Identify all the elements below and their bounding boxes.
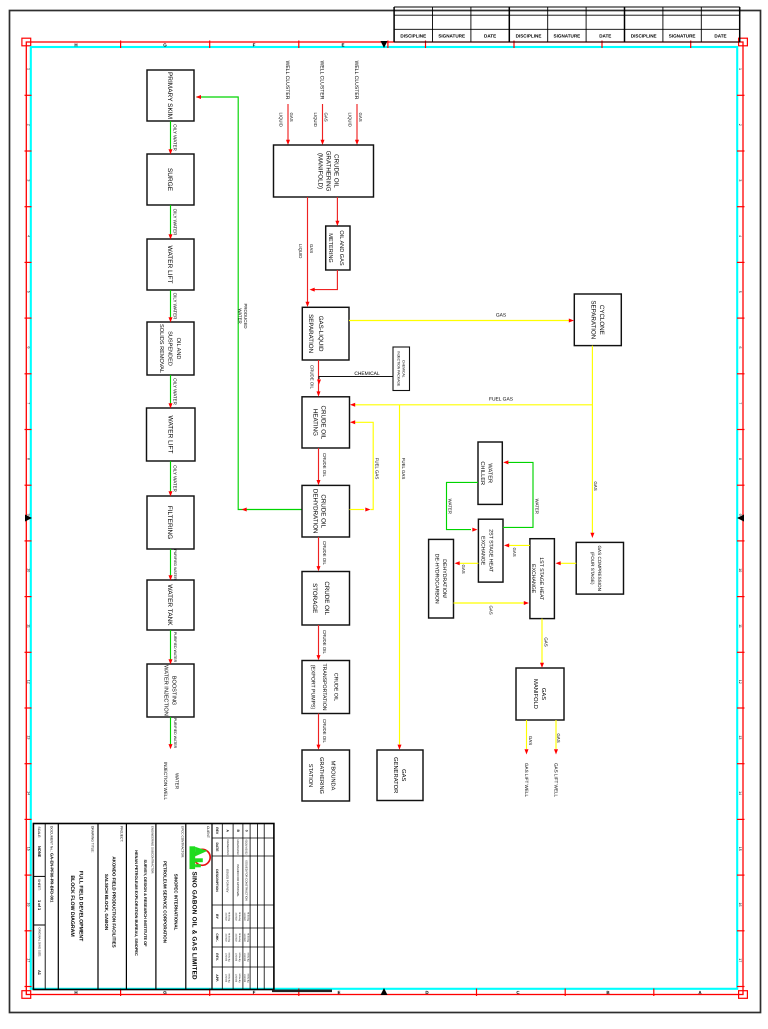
svg-text:M.Sw.hg: M.Sw.hg [227, 953, 230, 963]
block 2ST STAGE HEAT EXCHANGE [478, 519, 503, 582]
yellow wire dehydration fuel gas to heating [350, 509, 365, 511]
black wire chemical injection [319, 377, 393, 380]
block CRUDE OIL STORAGE [302, 572, 350, 626]
svg-text:GAS: GAS [400, 769, 407, 781]
cell EPCC CONTRACTOR [181, 826, 185, 858]
svg-text:16: 16 [738, 903, 742, 907]
svg-text:FILTERING: FILTERING [166, 506, 173, 539]
red wire heating to dehydration CRUDE OIL [318, 448, 320, 481]
block CRUDE OIL DEHYDRATION [302, 485, 350, 537]
trim mark bottom [272, 989, 332, 992]
svg-text:HEATING: HEATING [312, 409, 319, 436]
yellow wire cyclone to compression GAS [591, 346, 593, 533]
svg-text:H: H [74, 990, 77, 995]
centre marks left/right [25, 515, 32, 522]
green wire PURIFIED WATER segment 8 [170, 717, 172, 745]
svg-text:WELL CLUSTER: WELL CLUSTER [284, 61, 290, 100]
svg-text:GA-EN-PF00-PR-BFD-001: GA-EN-PF00-PR-BFD-001 [49, 853, 54, 903]
svg-text:APP.: APP. [215, 974, 219, 982]
node WELL CLUSTER 2 [319, 61, 325, 100]
svg-text:DESCRIPTION: DESCRIPTION [215, 869, 219, 892]
svg-text:BY: BY [215, 914, 219, 919]
svg-text:DOCUMENT No.:: DOCUMENT No.: [50, 826, 54, 852]
svg-text:BOOSTING: BOOSTING [171, 676, 177, 706]
svg-text:GAS: GAS [323, 113, 328, 122]
svg-text:SUSPENDED: SUSPENDED [167, 331, 173, 366]
svg-text:16: 16 [27, 903, 31, 907]
svg-text:GAS: GAS [289, 113, 294, 122]
block GAS MANIFOLD [516, 668, 564, 720]
svg-text:CRUDE OIL: CRUDE OIL [322, 541, 327, 565]
svg-text:8: 8 [27, 458, 31, 460]
svg-text:DRAWING TITLE:: DRAWING TITLE: [91, 826, 95, 853]
svg-text:LIQUID: LIQUID [347, 113, 352, 127]
svg-text:PRIMARY SKIM: PRIMARY SKIM [166, 72, 173, 119]
svg-text:GAS: GAS [543, 637, 548, 646]
svg-text:GAS LIFT WELL: GAS LIFT WELL [524, 763, 529, 798]
svg-text:NONE: NONE [37, 846, 42, 858]
node WELL CLUSTER 3 [353, 61, 359, 100]
svg-text:13: 13 [738, 735, 742, 739]
block DEHYDRATION/ DE-HYDROCARBON [429, 539, 454, 618]
block CYCLONE SEPARATION [574, 294, 621, 346]
cell SHEET [37, 879, 41, 891]
block OIL AND SUSPENDED SOLIDS REMOVAL [147, 322, 194, 375]
svg-text:M.Sw.hg: M.Sw.hg [246, 974, 249, 984]
svg-text:14: 14 [27, 791, 31, 795]
svg-text:M.Sw.hg: M.Sw.hg [238, 912, 241, 922]
block SURGE [147, 154, 194, 205]
svg-text:OIL AND GAS: OIL AND GAS [338, 230, 344, 265]
svg-text:5: 5 [738, 291, 742, 293]
green wire OILY WATER segment 3 [170, 290, 172, 318]
svg-text:GAS: GAS [309, 244, 314, 253]
green wire OILY WATER segment 4 [170, 375, 172, 404]
red wire metering return [312, 270, 337, 290]
discipline signature table [394, 7, 740, 42]
svg-text:SEPARATION: SEPARATION [307, 314, 314, 353]
green wire PRODUCED WATER return [197, 97, 303, 510]
svg-text:STATION: STATION [307, 764, 313, 787]
svg-text:STORAGE: STORAGE [311, 583, 318, 613]
svg-text:WATER: WATER [534, 499, 539, 514]
svg-text:0: 0 [244, 830, 248, 832]
centre marks top/bottom [381, 41, 388, 48]
svg-text:GAS-LIQUID: GAS-LIQUID [317, 316, 324, 352]
svg-text:SALSICH BLOCK, GABON: SALSICH BLOCK, GABON [104, 874, 109, 930]
svg-text:DE-HYDROCARBON: DE-HYDROCARBON [434, 554, 440, 604]
svg-text:CRUDE OIL: CRUDE OIL [320, 494, 327, 528]
revision table headers [215, 827, 219, 835]
svg-text:2: 2 [27, 124, 31, 126]
svg-text:G: G [163, 43, 167, 48]
block M'BOUNDA GRATHERING STATION [302, 750, 350, 801]
yellow wire FUEL GAS drop to gas generator [399, 405, 401, 745]
svg-text:REV: REV [215, 827, 219, 835]
svg-text:PURIFIED WATER: PURIFIED WATER [173, 718, 177, 749]
yellow wire FUEL GAS main header [354, 404, 592, 406]
yellow wire 1st stage to gas manifold GAS [541, 619, 543, 663]
svg-text:3: 3 [738, 179, 742, 181]
svg-text:E: E [337, 990, 340, 995]
svg-text:(MANIFOLD): (MANIFOLD) [316, 153, 323, 189]
svg-text:M.Sw.hg: M.Sw.hg [227, 974, 230, 984]
svg-text:10/2022: 10/2022 [235, 912, 238, 921]
svg-text:WELL CLUSTER: WELL CLUSTER [353, 61, 359, 100]
svg-text:FUEL GAS: FUEL GAS [489, 397, 514, 403]
svg-text:10: 10 [738, 568, 742, 572]
svg-text:10/2022: 10/2022 [224, 953, 227, 962]
svg-text:6: 6 [738, 347, 742, 349]
yellow wire 1st to 2nd stage GAS [509, 544, 530, 546]
svg-text:(FOUR STAGE): (FOUR STAGE) [590, 552, 595, 585]
svg-text:GAS: GAS [512, 548, 517, 557]
svg-text:6: 6 [27, 347, 31, 349]
yellow wire manifold to gas lift well 1 [526, 720, 528, 749]
red wire well cluster 1 feed [287, 104, 289, 140]
revision row A [226, 829, 230, 832]
svg-text:PETROLEUM SERVICE CORPORATION: PETROLEUM SERVICE CORPORATION [162, 861, 167, 943]
svg-text:M.Sw.hg: M.Sw.hg [227, 912, 230, 922]
svg-text:SOLIDS REMOVAL: SOLIDS REMOVAL [158, 324, 164, 373]
svg-text:WATER LIFT: WATER LIFT [167, 416, 174, 454]
svg-text:M.Sw.hg: M.Sw.hg [227, 933, 230, 943]
svg-text:12: 12 [27, 680, 31, 684]
svg-text:INJECTION WELL: INJECTION WELL [163, 762, 168, 800]
block GAS COMPRESSION (FOUR STAGE) [576, 542, 623, 594]
svg-text:10/2022: 10/2022 [243, 933, 246, 942]
svg-text:1ST STAGE HEAT: 1ST STAGE HEAT [538, 557, 544, 601]
svg-text:GRATHERING: GRATHERING [324, 151, 331, 192]
svg-text:2ST STAGE HEAT: 2ST STAGE HEAT [488, 529, 494, 573]
svg-text:BLOCK FLOW DIAGRAM: BLOCK FLOW DIAGRAM [69, 875, 75, 936]
svg-text:11: 11 [27, 624, 31, 628]
svg-text:10/2022: 10/2022 [235, 974, 238, 983]
svg-text:10/APR/2022: 10/APR/2022 [236, 839, 239, 855]
block GAS-LIQUID SEPARATION [302, 307, 349, 360]
svg-text:ENGINEERING SUBCONTRACTOR:: ENGINEERING SUBCONTRACTOR: [151, 826, 155, 874]
svg-text:H: H [74, 43, 77, 48]
svg-text:WATER: WATER [447, 499, 452, 514]
svg-text:WELL CLUSTER: WELL CLUSTER [319, 61, 325, 100]
svg-text:METERING: METERING [327, 233, 333, 263]
svg-text:CRUDE OIL: CRUDE OIL [332, 673, 338, 701]
svg-text:GAS: GAS [540, 688, 547, 700]
svg-text:TRANSPORTATION: TRANSPORTATION [321, 664, 327, 711]
svg-text:GAS: GAS [461, 565, 466, 574]
svg-text:F: F [253, 43, 256, 48]
svg-text:17: 17 [27, 958, 31, 962]
red frame corner squares [22, 38, 31, 46]
yellow wire compression to 1st stage [560, 562, 576, 564]
block BOOSTING WATER INJECTION [147, 664, 194, 717]
green wire OILY WATER segment 5 [170, 461, 172, 492]
svg-text:DEHYDRATION: DEHYDRATION [312, 489, 319, 534]
svg-text:GRATHERING: GRATHERING [318, 757, 324, 794]
svg-text:SIGNATURE: SIGNATURE [554, 33, 581, 38]
svg-text:CLIENT:: CLIENT: [206, 826, 210, 838]
block WATER CHILLER [478, 442, 502, 504]
svg-text:FULL FIELD DEVELOPMENT: FULL FIELD DEVELOPMENT [78, 871, 84, 942]
svg-text:WATER LIFT: WATER LIFT [166, 246, 173, 284]
svg-text:10/2022: 10/2022 [224, 933, 227, 942]
cell DRAWING TITLE [91, 826, 95, 853]
node WELL CLUSTER 1 [284, 61, 290, 100]
svg-text:CRUDE OIL: CRUDE OIL [322, 719, 327, 743]
green wire chiller return WATER [503, 462, 533, 527]
svg-text:CRUDE OIL: CRUDE OIL [322, 630, 327, 654]
block WATER TANK [147, 580, 194, 630]
svg-text:DISCIPLINE: DISCIPLINE [400, 33, 426, 38]
red wire transportation to mbounda CRUDE OIL [318, 714, 320, 746]
red wire well cluster 2 feed [322, 104, 324, 140]
svg-text:10/2022: 10/2022 [243, 912, 246, 921]
svg-text:WATER: WATER [486, 463, 492, 483]
svg-text:E: E [341, 43, 344, 48]
yellow wire dehydration to 1st stage GAS [454, 602, 526, 604]
svg-text:DISCIPLINE: DISCIPLINE [631, 33, 657, 38]
svg-text:OIL AND: OIL AND [175, 338, 181, 360]
cell DOCUMENT NO [50, 826, 54, 852]
block PRIMARY SKIM [147, 70, 194, 121]
svg-text:G: G [163, 990, 167, 995]
green wire chiller supply WATER [447, 482, 479, 529]
svg-text:SHEET:: SHEET: [37, 879, 41, 891]
svg-text:OILY WATER: OILY WATER [173, 124, 178, 152]
svg-text:LIQUID: LIQUID [298, 244, 303, 258]
block CRUDE OIL TRANSPORTATION (EXPORT PUMPS) [302, 661, 350, 714]
svg-text:DATE: DATE [484, 33, 496, 38]
red wire gathering to metering [336, 197, 338, 222]
svg-text:8: 8 [738, 458, 742, 460]
green wire OILY WATER segment 1 [170, 121, 172, 150]
svg-text:CHILLER: CHILLER [479, 461, 485, 485]
zone letters top edge [74, 43, 344, 48]
revision row B [236, 829, 240, 832]
block WATER LIFT 2 [147, 408, 196, 461]
svg-text:DATE: DATE [215, 843, 219, 853]
svg-text:15: 15 [738, 847, 742, 851]
svg-text:SIGNATURE: SIGNATURE [438, 33, 465, 38]
svg-text:LIQUID: LIQUID [278, 113, 283, 127]
svg-text:10/2022: 10/2022 [235, 953, 238, 962]
green wire PURIFIED WATER segment 6 [170, 549, 172, 576]
cell ENGINEERING SUBCONTRACTOR [151, 826, 155, 874]
svg-text:CRUDE OIL: CRUDE OIL [322, 453, 327, 477]
red wire gathering to separation (gas liquid) [307, 197, 309, 303]
svg-text:F: F [253, 990, 256, 995]
svg-text:GENERATOR: GENERATOR [392, 757, 399, 793]
block WATER LIFT 1 [147, 239, 194, 290]
cell CLIENT [206, 826, 210, 838]
svg-text:PURIFIED WATER: PURIFIED WATER [173, 632, 177, 663]
yellow wire 2nd stage to dehydration GAS [459, 562, 478, 564]
svg-text:GAS: GAS [358, 113, 363, 122]
svg-text:EXCHANGE: EXCHANGE [530, 564, 536, 594]
svg-text:DATE: DATE [714, 33, 726, 38]
svg-text:15: 15 [27, 847, 31, 851]
svg-text:5: 5 [27, 291, 31, 293]
green wire PURIFIED WATER segment 7 [170, 630, 172, 660]
yellow wire manifold to gas lift well 2 [555, 720, 557, 749]
svg-text:GAS: GAS [496, 313, 507, 319]
svg-text:PROJECT:: PROJECT: [120, 826, 124, 842]
block OIL AND GAS METERING [326, 226, 350, 270]
svg-text:14: 14 [738, 791, 742, 795]
svg-text:9: 9 [27, 514, 31, 516]
zone ticks top edge [121, 41, 691, 997]
zone letters bottom edge [74, 990, 702, 995]
svg-text:GAS LIFT WELL: GAS LIFT WELL [553, 763, 558, 798]
title block grid [33, 824, 274, 990]
svg-text:ISSUED FOR CONSTRUCTION: ISSUED FOR CONSTRUCTION [245, 860, 249, 900]
red wire well cluster 3 feed [356, 104, 358, 140]
svg-text:3: 3 [27, 179, 31, 181]
svg-text:11: 11 [738, 624, 742, 628]
svg-text:12: 12 [738, 680, 742, 684]
svg-text:13: 13 [27, 735, 31, 739]
svg-text:SINOPEC INTERNATIONAL: SINOPEC INTERNATIONAL [173, 874, 178, 931]
svg-text:10: 10 [27, 568, 31, 572]
svg-text:WATER: WATER [175, 773, 180, 790]
svg-text:DEHYDRATION/: DEHYDRATION/ [441, 559, 447, 598]
svg-text:LIQUID: LIQUID [313, 113, 318, 127]
svg-text:GAS: GAS [556, 733, 561, 742]
svg-text:GAS: GAS [489, 606, 494, 615]
svg-text:RFV.: RFV. [215, 953, 219, 961]
svg-text:M.Sw.hg: M.Sw.hg [246, 953, 249, 963]
green wire OILY WATER segment 2 [170, 205, 172, 235]
red wire storage to transportation CRUDE OIL [318, 625, 320, 656]
svg-text:4: 4 [738, 235, 742, 237]
svg-text:CRUDE OIL: CRUDE OIL [320, 406, 327, 440]
block FILTERING [147, 496, 194, 549]
svg-text:WATER TANK: WATER TANK [166, 584, 173, 626]
svg-text:OILY WATER: OILY WATER [173, 378, 178, 406]
svg-text:1 of 1: 1 of 1 [37, 900, 42, 911]
svg-text:4: 4 [27, 235, 31, 237]
cell ORIGINAL DWG SIZE [37, 928, 41, 958]
svg-text:M.Sw.hg: M.Sw.hg [246, 933, 249, 943]
logo sino gabon [190, 846, 211, 869]
cell SCALE [37, 827, 41, 839]
svg-text:CRUDE OIL: CRUDE OIL [332, 154, 339, 188]
block CRUDE OIL HEATING [302, 397, 350, 448]
svg-text:EPCC CONTRACTOR:: EPCC CONTRACTOR: [181, 826, 185, 858]
svg-text:1: 1 [738, 68, 742, 70]
revision row 0 [244, 830, 248, 832]
svg-text:SIGNATURE: SIGNATURE [669, 33, 696, 38]
svg-text:INJECTION PACKAGE: INJECTION PACKAGE [396, 351, 400, 387]
svg-text:A1: A1 [37, 970, 42, 976]
svg-text:M.Sw.hg: M.Sw.hg [238, 974, 241, 984]
svg-text:GAS COMPRESSION: GAS COMPRESSION [597, 545, 602, 590]
svg-text:9: 9 [738, 514, 742, 516]
svg-text:OILY WATER: OILY WATER [173, 293, 178, 321]
svg-text:GAS: GAS [593, 481, 598, 490]
svg-text:MANIFOLD: MANIFOLD [532, 679, 539, 709]
cell PROJECT [120, 826, 124, 842]
svg-text:CHEMICAL: CHEMICAL [354, 371, 380, 377]
svg-text:CRUDE OIL: CRUDE OIL [309, 365, 314, 389]
node WATER INJECTION WELL [163, 762, 179, 800]
svg-text:M.Sw.hg: M.Sw.hg [238, 933, 241, 943]
red wire dehydration to storage CRUDE OIL [318, 537, 320, 567]
svg-text:(EXPORT PUMPS): (EXPORT PUMPS) [310, 665, 316, 710]
svg-text:AKONDO FIELD PRODUCTION FACILI: AKONDO FIELD PRODUCTION FACILITIES [112, 856, 117, 947]
block CRUDE OIL GRATHERING (MANIFOLD) [274, 145, 374, 197]
svg-text:CYCLONE: CYCLONE [598, 305, 605, 335]
svg-text:OILY WATER: OILY WATER [173, 465, 178, 493]
svg-text:CRUDE OIL: CRUDE OIL [323, 581, 330, 615]
svg-text:SCALE:: SCALE: [37, 827, 41, 839]
svg-text:OILY WATER: OILY WATER [173, 209, 178, 237]
svg-text:10/2022: 10/2022 [235, 933, 238, 942]
svg-text:10/2022: 10/2022 [243, 953, 246, 962]
svg-text:02/JUN/2022: 02/JUN/2022 [245, 839, 248, 855]
svg-text:ISSUED FOR APPROVAL: ISSUED FOR APPROVAL [236, 864, 240, 897]
svg-text:SEPARATION: SEPARATION [589, 300, 596, 339]
svg-text:M.Sw.hg: M.Sw.hg [238, 953, 241, 963]
svg-text:WATER: WATER [238, 308, 243, 323]
svg-text:FUEL GAS: FUEL GAS [401, 458, 406, 480]
svg-text:FUEL GAS: FUEL GAS [375, 458, 380, 480]
svg-text:10/2022: 10/2022 [243, 974, 246, 983]
svg-text:EXCHANGE: EXCHANGE [480, 536, 486, 566]
svg-text:DISCIPLINE: DISCIPLINE [516, 33, 542, 38]
block CHEMICAL INJECTION PACKAGE [393, 347, 410, 391]
svg-text:PURIFIED WATER: PURIFIED WATER [173, 549, 177, 580]
block GAS GENERATOR [377, 750, 423, 801]
svg-text:ISSUED FOR REV: ISSUED FOR REV [226, 869, 230, 893]
svg-text:1: 1 [27, 68, 31, 70]
svg-text:GAS: GAS [528, 736, 533, 745]
svg-text:10/2022: 10/2022 [224, 974, 227, 983]
svg-text:17: 17 [738, 958, 742, 962]
block 1ST STAGE HEAT EXCHANGE [530, 539, 555, 619]
svg-text:HENAN PETROLEUM EXPLORATION BU: HENAN PETROLEUM EXPLORATION BUREAU, SINO… [134, 850, 139, 956]
svg-text:M'BOUNDA: M'BOUNDA [329, 761, 335, 791]
svg-text:SINO GABON OIL & GAS LIMITED: SINO GABON OIL & GAS LIMITED [190, 872, 197, 981]
svg-text:WATER INJECTION: WATER INJECTION [163, 665, 169, 716]
yellow wire separation to cyclone GAS [349, 320, 570, 322]
svg-text:2: 2 [738, 124, 742, 126]
svg-text:ORIGINAL DWG SIZE:: ORIGINAL DWG SIZE: [37, 928, 41, 958]
svg-text:CHEMICAL: CHEMICAL [402, 360, 406, 378]
svg-text:10/2022: 10/2022 [224, 912, 227, 921]
svg-text:DATE: DATE [599, 33, 611, 38]
svg-text:CHK.: CHK. [215, 933, 219, 941]
svg-text:M.Sw.hg: M.Sw.hg [246, 912, 249, 922]
svg-text:SURGE: SURGE [166, 168, 173, 192]
red wire separation to heating CRUDE OIL [318, 360, 320, 392]
svg-text:01/MAR/2022: 01/MAR/2022 [226, 839, 229, 855]
svg-text:SURVEY, DESIGN & RESEARCH INST: SURVEY, DESIGN & RESEARCH INSTITUTE OF [143, 859, 148, 947]
svg-text:7: 7 [27, 402, 31, 404]
svg-text:7: 7 [738, 402, 742, 404]
